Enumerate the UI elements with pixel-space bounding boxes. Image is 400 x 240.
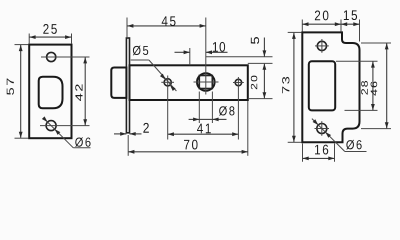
extension lines right of body [248,62,273,64]
leader arrow upper [42,116,48,122]
latch body [130,65,248,100]
label Ø8 [219,106,234,116]
label 5 [251,37,259,44]
right hole [235,79,241,85]
dimension 73 [288,31,302,33]
dimension 10 [189,48,191,65]
label 73 [282,77,289,93]
label 57 [7,78,14,94]
dimension Ø8 [189,118,200,120]
label 45 [162,16,176,26]
screw hole top [47,52,56,61]
dimension Ø8 extension lines [198,92,200,124]
label 15 [344,10,357,20]
dimension 42 [84,57,86,125]
faceplate side view [126,38,129,133]
leader arrow upper [313,119,319,125]
dimension 5 [263,38,265,57]
leader arrow lower [55,129,61,135]
label 42 [75,84,82,101]
faceplate outline [29,45,71,139]
dimension 57 [15,44,29,46]
feature line [206,56,273,58]
dimension 15 top [359,20,361,42]
bottom hole [317,124,327,134]
hole Ø5 cross [161,81,174,83]
bottom hole cross [315,128,330,130]
leader line Ø6 [44,118,74,148]
label 28 [361,81,368,95]
dimension 45 [126,18,128,39]
top hole [317,41,326,50]
label 20 [315,10,329,20]
dimension 46 extension lines [361,42,391,44]
center line bottom hole [40,125,90,127]
dimension 25 [28,34,30,45]
latch bolt [111,68,126,98]
dimension 28 [372,61,374,110]
label 10 [213,42,225,52]
dimension 46 [386,43,388,128]
dimension 70 [128,151,248,153]
label 20 [251,76,257,90]
dimension 20 [263,64,265,99]
label Ø6 [75,137,90,147]
spindle square [199,76,212,89]
label 2 [143,123,149,133]
spindle hole Ø8 [197,73,215,91]
dimension 20 top [301,20,303,32]
spindle cross [194,81,219,83]
label 16 [315,145,328,155]
center line top hole [41,56,90,58]
dimension 2 [114,133,126,135]
hole Ø5 [164,79,171,86]
leader line Ø6 right [312,119,345,152]
leader Ø5 [131,59,149,61]
right hole cross [233,82,244,84]
screw hole bottom [46,121,56,131]
label 70 [184,140,198,150]
label 41 [197,124,211,134]
dimension 70 extension lines [127,135,129,156]
label Ø6 [346,140,361,150]
dimension 16 extension lines [302,144,304,162]
top hole cross [315,45,329,47]
strike opening [309,61,335,110]
dimension 41 [168,133,239,135]
label 46 [371,82,378,96]
label Ø5 [133,46,148,56]
latch opening [39,77,63,109]
dimension 16 [303,157,335,159]
strike plate outline [302,32,359,142]
dimension 28 extension lines [336,60,378,62]
label 25 [43,24,57,34]
leader arrow lower [325,132,331,138]
